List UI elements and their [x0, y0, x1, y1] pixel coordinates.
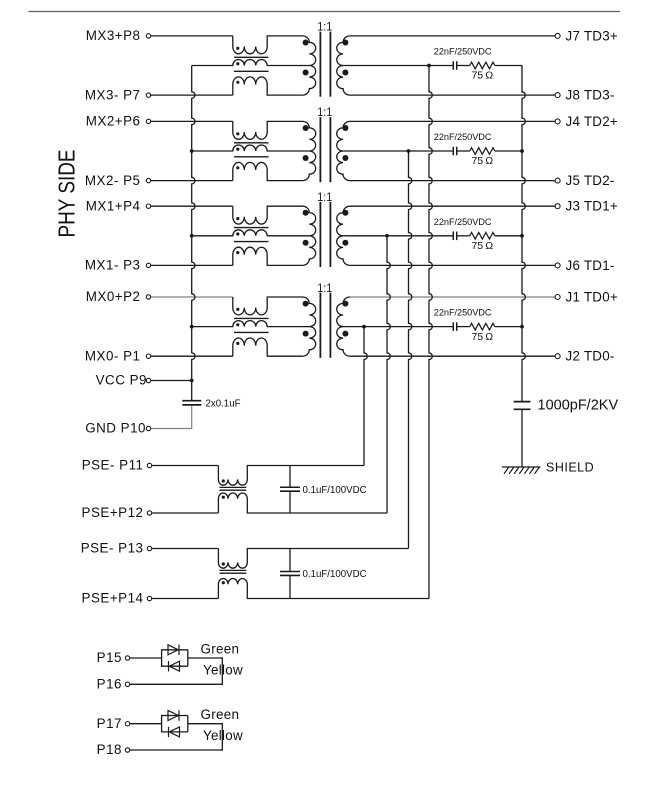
wire MX3- P7 to choke T3A [151, 94, 233, 96]
choke B1 lower winding [218, 493, 387, 513]
transformer T0 secondary lower polarity dot [342, 331, 348, 337]
pin P17 [125, 722, 129, 726]
transformer T2 secondary lower polarity dot [342, 155, 348, 161]
choke T0A middle winding polarity dot [236, 323, 239, 326]
choke B2 upper winding [218, 549, 408, 569]
choke T2A top winding polarity dot [236, 132, 239, 135]
svg-text:22nF/250VDC: 22nF/250VDC [434, 47, 492, 57]
choke T0A core bar lower [234, 331, 269, 333]
choke T3A top winding polarity dot [236, 47, 239, 50]
wire transformer T2 secondary to terminal J5 TD2- [350, 180, 555, 182]
wire MX0- P1 to choke T0A [151, 355, 233, 357]
pin GND P10 [146, 426, 150, 430]
choke B1 upper winding [218, 466, 364, 486]
pin PSE- P11 [147, 463, 151, 467]
svg-text:J1 TD0+: J1 TD0+ [566, 290, 619, 305]
choke B1 core bars [220, 486, 247, 488]
wire capacitor C5 to shield ground [521, 410, 523, 467]
wire VCC P9 to bus [151, 380, 192, 382]
choke T3A bottom winding [233, 77, 303, 95]
capacitor C7 0.1uF/100VDC [289, 466, 291, 488]
terminal J4 TD2+ [555, 119, 560, 124]
svg-text:MX3+P8: MX3+P8 [86, 28, 141, 43]
capacitor C8 0.1uF/100VDC [289, 549, 291, 572]
wire transformer T3 center tap to capacitor C3 [343, 65, 453, 67]
wire capacitor C1 to resistor R1 [457, 235, 470, 237]
junction shield bus channel 2 [520, 149, 524, 153]
choke T0A core bar upper [234, 317, 269, 319]
transformer T1 primary lower polarity dot [303, 240, 309, 246]
pin PSE- P13 [147, 546, 151, 550]
wire transformer T0 secondary to terminal J2 TD0- [350, 355, 555, 357]
pin MX2+P6 [146, 119, 150, 123]
junction shield bus channel 0 [520, 325, 524, 329]
choke B2 core bars [220, 569, 247, 571]
pin MX3+P8 [146, 34, 150, 38]
transformer T2 core [319, 117, 321, 182]
wire transformer T2 secondary to terminal J4 TD2+ [350, 120, 555, 122]
choke T0A bottom winding polarity dot [236, 342, 239, 345]
choke T0A top winding [233, 297, 303, 315]
wire capacitor C2 to resistor R2 [457, 150, 470, 152]
junction center tap T3 [427, 64, 431, 68]
transformer T3 secondary upper polarity dot [342, 40, 348, 46]
svg-text:SHIELD: SHIELD [546, 461, 594, 475]
transformer T3 secondary winding lower [337, 66, 350, 96]
choke T3A middle winding [192, 60, 310, 66]
transformer T0 primary winding upper [303, 297, 316, 327]
svg-text:22nF/250VDC: 22nF/250VDC [434, 308, 492, 318]
choke T3A core bar upper [234, 56, 269, 58]
pin MX1- P3 [146, 263, 150, 267]
junction VCC bus to choke T0A center [190, 325, 194, 329]
junction center tap T2 [407, 149, 411, 153]
junction shield bus channel 1 [520, 234, 524, 238]
choke T2A core bar upper [234, 142, 269, 144]
svg-text:22nF/250VDC: 22nF/250VDC [434, 217, 492, 227]
transformer T2 primary upper polarity dot [303, 125, 309, 131]
wire center tap T1 down to PSE feed [387, 236, 390, 513]
terminal J7 TD3+ [555, 33, 560, 38]
wire resistor R2 to shield bus [495, 150, 522, 152]
transformer T3 primary upper polarity dot [303, 40, 309, 46]
junction center tap T1 [385, 234, 389, 238]
terminal J3 TD1+ [555, 204, 560, 209]
transformer T3 secondary lower polarity dot [342, 70, 348, 76]
wire center tap T0 down to PSE feed [364, 327, 367, 466]
svg-text:0.1uF/100VDC: 0.1uF/100VDC [303, 485, 367, 496]
choke T3A top winding [233, 36, 303, 54]
choke T3A middle winding polarity dot [236, 62, 239, 65]
svg-text:P18: P18 [97, 742, 122, 757]
terminal J1 TD0+ [555, 295, 560, 300]
svg-text:P15: P15 [97, 650, 122, 665]
capacitor C6 2x0.1uF [182, 400, 201, 402]
wire MX1+P4 to choke T1A [151, 205, 233, 207]
choke T3A core bar lower [234, 70, 269, 72]
choke T2A middle winding [192, 145, 310, 151]
wire center tap T3 down to PSE feed [429, 66, 432, 599]
transformer T2 primary winding lower [303, 151, 316, 181]
capacitor C1 22nF/250VDC [452, 232, 454, 241]
wire transformer T3 secondary to terminal J7 TD3+ [350, 35, 555, 37]
choke T1A core bar upper [234, 227, 269, 229]
wire P17 to LED D2 [130, 723, 162, 725]
junction VCC bus to choke T2A center [190, 149, 194, 153]
resistor R3 75 ohm [470, 62, 495, 69]
choke T2A bottom winding [233, 162, 303, 180]
shield chassis ground [502, 467, 540, 474]
transformer T1 secondary winding upper [337, 206, 350, 236]
pin P18 [125, 748, 129, 752]
wire shield bus vertical [522, 66, 525, 402]
svg-text:1:1: 1:1 [317, 281, 332, 295]
LED D1 frame [162, 650, 188, 666]
transformer T0 secondary winding upper [337, 297, 350, 327]
svg-text:MX0+P2: MX0+P2 [86, 289, 141, 304]
choke B1 lower polarity dot [222, 496, 225, 499]
svg-text:MX3- P7: MX3- P7 [85, 87, 141, 102]
svg-text:MX1- P3: MX1- P3 [85, 258, 141, 273]
svg-text:0.1uF/100VDC: 0.1uF/100VDC [303, 569, 367, 580]
wire P15 to LED D1 [130, 657, 162, 659]
pin MX1+P4 [146, 204, 150, 208]
choke T1A top winding polarity dot [236, 217, 239, 220]
svg-text:P17: P17 [97, 716, 122, 731]
transformer T1 primary winding lower [303, 236, 316, 266]
wire VCC bus vertical [192, 66, 195, 401]
transformer T0 primary upper polarity dot [303, 301, 309, 307]
transformer T0 core [319, 293, 321, 358]
svg-text:MX1+P4: MX1+P4 [86, 198, 141, 213]
svg-text:J5 TD2-: J5 TD2- [566, 173, 615, 188]
junction VCC bus at pin P9 [190, 379, 194, 383]
choke T1A middle winding polarity dot [236, 232, 239, 235]
choke T0A middle winding [192, 321, 310, 327]
wire MX1- P3 to choke T1A [151, 264, 233, 266]
svg-text:J3 TD1+: J3 TD1+ [566, 199, 619, 214]
transformer T0 secondary winding lower [337, 327, 350, 357]
wire MX0+P2 to choke T0A [151, 296, 233, 298]
capacitor C3 22nF/250VDC [452, 61, 454, 70]
pin P15 [125, 656, 129, 660]
choke B1 upper polarity dot [222, 479, 225, 482]
transformer T2 secondary upper polarity dot [342, 125, 348, 131]
transformer T0 primary winding lower [303, 327, 316, 357]
svg-text:MX2- P5: MX2- P5 [85, 173, 141, 188]
terminal J8 TD3- [555, 93, 560, 98]
svg-text:PHY SIDE: PHY SIDE [54, 150, 80, 238]
wire capacitor C6 to GND corner [151, 406, 192, 429]
svg-text:J4 TD2+: J4 TD2+ [566, 114, 619, 129]
svg-text:75 Ω: 75 Ω [471, 70, 493, 82]
terminal J2 TD0- [555, 354, 560, 359]
svg-text:1000pF/2KV: 1000pF/2KV [538, 398, 619, 414]
pin VCC P9 [146, 378, 150, 382]
svg-text:Yellow: Yellow [203, 663, 243, 678]
transformer T2 secondary winding lower [337, 151, 350, 181]
junction VCC bus to choke T1A center [190, 234, 194, 238]
choke T2A bottom winding polarity dot [236, 166, 239, 169]
wire MX3+P8 to choke T3A [151, 35, 233, 37]
svg-text:Green: Green [201, 707, 240, 722]
LED D2 yellow diode [169, 727, 180, 737]
transformer T1 secondary lower polarity dot [342, 240, 348, 246]
choke T1A core bar lower [234, 241, 269, 243]
svg-text:75 Ω: 75 Ω [471, 240, 493, 252]
wire PSE- P13 to choke B2 [152, 548, 219, 550]
wire resistor R3 to shield bus [495, 65, 522, 67]
wire PSE- P11 to choke B1 [152, 465, 219, 467]
svg-text:MX0- P1: MX0- P1 [85, 348, 141, 363]
svg-text:2x0.1uF: 2x0.1uF [206, 399, 241, 410]
wire transformer T0 center tap to capacitor C0 [343, 326, 453, 328]
svg-text:P16: P16 [97, 677, 122, 692]
transformer T1 secondary winding lower [337, 236, 350, 266]
junction center tap T0 [362, 325, 366, 329]
transformer T3 primary lower polarity dot [303, 70, 309, 76]
LED D1 yellow diode [169, 661, 180, 671]
wire capacitor C0 to resistor R0 [457, 326, 470, 328]
transformer T2 primary lower polarity dot [303, 155, 309, 161]
transformer T3 core [319, 32, 321, 97]
svg-text:22nF/250VDC: 22nF/250VDC [434, 132, 492, 142]
LED D2 frame [162, 716, 188, 732]
resistor R0 75 ohm [470, 323, 495, 330]
wire PSE+P14 to choke B2 [152, 598, 219, 600]
pin P16 [125, 682, 129, 686]
svg-text:PSE- P11: PSE- P11 [82, 458, 144, 473]
transformer T1 secondary upper polarity dot [342, 210, 348, 216]
pin MX0- P1 [146, 354, 150, 358]
wire LED D2 to P18 [130, 724, 223, 750]
choke T0A bottom winding [233, 338, 303, 356]
choke B2 lower winding [218, 579, 429, 599]
transformer T2 primary winding upper [303, 121, 316, 151]
transformer T3 secondary winding upper [337, 36, 350, 66]
choke B2 lower polarity dot [222, 581, 225, 584]
svg-text:PSE- P13: PSE- P13 [81, 541, 144, 556]
wire transformer T1 secondary to terminal J6 TD1- [350, 264, 555, 266]
svg-text:J6 TD1-: J6 TD1- [566, 258, 615, 273]
choke T0A top winding polarity dot [236, 308, 239, 311]
wire center tap T2 down to PSE feed [409, 151, 412, 549]
wire LED D1 to P16 [130, 658, 223, 684]
wire PSE+P12 to choke B1 [152, 512, 219, 514]
choke T3A bottom winding polarity dot [236, 81, 239, 84]
svg-text:PSE+P14: PSE+P14 [82, 591, 144, 606]
svg-text:Yellow: Yellow [203, 728, 243, 743]
terminal J5 TD2- [555, 178, 560, 183]
pin PSE+P12 [147, 511, 151, 515]
wire MX2- P5 to choke T2A [151, 180, 233, 182]
LED D2 green diode [168, 710, 179, 720]
pin MX2- P5 [146, 178, 150, 182]
transformer T1 primary winding upper [303, 206, 316, 236]
page top rule [29, 11, 621, 13]
wire transformer T2 center tap to capacitor C2 [343, 150, 453, 152]
choke T1A middle winding [192, 230, 310, 236]
pin MX0+P2 [146, 295, 150, 299]
wire transformer T0 secondary to terminal J1 TD0+ [350, 296, 555, 298]
resistor R2 75 ohm [470, 148, 495, 155]
pin MX3- P7 [146, 93, 150, 97]
LED D1 green diode [168, 645, 179, 655]
svg-text:Green: Green [201, 642, 240, 657]
transformer T2 secondary winding upper [337, 121, 350, 151]
transformer T0 secondary upper polarity dot [342, 301, 348, 307]
wire capacitor C3 to resistor R3 [457, 65, 470, 67]
choke B2 upper polarity dot [222, 562, 225, 565]
choke T2A top winding [233, 121, 303, 139]
transformer T3 primary winding lower [303, 66, 316, 96]
transformer T1 core [319, 202, 321, 267]
choke T1A bottom winding polarity dot [236, 251, 239, 254]
capacitor C0 22nF/250VDC [452, 322, 454, 331]
svg-text:VCC P9: VCC P9 [96, 373, 147, 388]
transformer T1 primary upper polarity dot [303, 210, 309, 216]
svg-text:J2 TD0-: J2 TD0- [566, 349, 615, 364]
choke T2A core bar lower [234, 156, 269, 158]
wire transformer T1 secondary to terminal J3 TD1+ [350, 205, 555, 207]
transformer T3 primary winding upper [303, 36, 316, 66]
svg-text:J8 TD3-: J8 TD3- [566, 88, 615, 103]
wire resistor R0 to shield bus [495, 326, 522, 328]
svg-text:PSE+P12: PSE+P12 [82, 505, 144, 520]
choke T2A middle winding polarity dot [236, 148, 239, 151]
svg-text:J7 TD3+: J7 TD3+ [566, 28, 619, 43]
wire resistor R1 to shield bus [495, 235, 522, 237]
choke T1A top winding [233, 206, 303, 224]
svg-text:GND P10: GND P10 [85, 421, 146, 436]
wire transformer T1 center tap to capacitor C1 [343, 235, 453, 237]
capacitor C5 1000pF/2KV [514, 401, 531, 403]
svg-text:75 Ω: 75 Ω [471, 331, 493, 343]
wire transformer T3 secondary to terminal J8 TD3- [350, 94, 555, 96]
svg-text:75 Ω: 75 Ω [471, 155, 493, 167]
terminal J6 TD1- [555, 263, 560, 268]
choke T1A bottom winding [233, 247, 303, 265]
resistor R1 75 ohm [470, 233, 495, 240]
capacitor C2 22nF/250VDC [452, 147, 454, 156]
svg-text:MX2+P6: MX2+P6 [86, 114, 141, 129]
wire MX2+P6 to choke T2A [151, 120, 233, 122]
transformer T0 primary lower polarity dot [303, 331, 309, 337]
pin PSE+P14 [147, 596, 151, 600]
